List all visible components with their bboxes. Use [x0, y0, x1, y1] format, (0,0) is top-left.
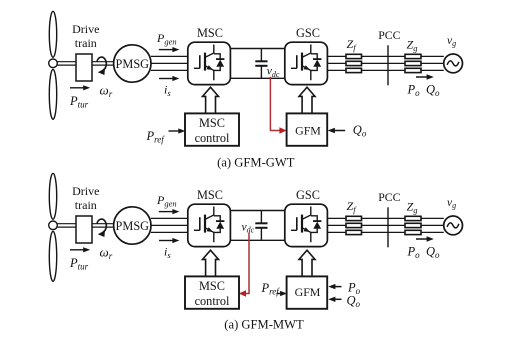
P_ref arrow into GFM (bottom fig): [277, 293, 282, 295]
MSC control box (bottom fig): [185, 276, 239, 308]
P_gen arrow (bottom fig): [159, 211, 173, 213]
svg-text:is: is: [164, 83, 171, 99]
block arrow MSC-control to MSC: [203, 87, 219, 113]
svg-text:Qo: Qo: [426, 245, 440, 261]
svg-text:Po: Po: [407, 245, 421, 261]
svg-text:Pgen: Pgen: [156, 193, 177, 209]
svg-text:Zf: Zf: [347, 37, 358, 53]
IGBT inside MSC: [194, 45, 225, 81]
P_tur arrow: [70, 87, 84, 89]
GFM box: [287, 113, 328, 145]
svg-text:vdc: vdc: [242, 222, 255, 235]
svg-text:Qo: Qo: [353, 123, 367, 139]
turbine hub (bottom fig): [49, 221, 58, 230]
svg-text:GSC: GSC: [296, 26, 320, 40]
svg-text:Zf: Zf: [347, 199, 358, 215]
svg-text:PMSG: PMSG: [116, 219, 150, 233]
svg-text:(a) GFM-MWT: (a) GFM-MWT: [224, 318, 304, 332]
svg-text:Drive: Drive: [72, 22, 99, 36]
GFM box (bottom fig): [287, 276, 328, 308]
generator PMSG: [114, 45, 151, 82]
red feedback wire v_dc to GFM: [270, 77, 280, 131]
wind turbine lower blade (bottom fig): [49, 231, 56, 281]
svg-text:GSC: GSC: [296, 188, 320, 202]
svg-text:GFM: GFM: [295, 123, 321, 137]
generator PMSG (bottom fig): [114, 207, 151, 244]
P_tur arrow (bottom fig): [70, 249, 84, 251]
three-phase wires GSC to grid (bottom fig): [327, 218, 443, 232]
converter GSC box: [285, 42, 328, 84]
svg-text:PMSG: PMSG: [116, 57, 150, 71]
svg-text:train: train: [75, 198, 97, 212]
svg-text:control: control: [195, 131, 230, 145]
P_gen arrow: [159, 49, 173, 51]
PCC bus line (bottom fig): [387, 207, 389, 247]
svg-text:ωr: ωr: [100, 82, 113, 99]
converter MSC box (bottom fig): [188, 204, 231, 246]
svg-text:vdc: vdc: [267, 66, 280, 79]
block arrow GFM to GSC: [299, 87, 315, 113]
svg-text:PCC: PCC: [378, 190, 400, 204]
turbine shaft (double line): [55, 62, 114, 65]
P_o input arrow (bottom fig): [335, 286, 342, 288]
svg-text:Ptur: Ptur: [69, 94, 89, 110]
svg-text:vg: vg: [447, 197, 456, 210]
svg-text:PCC: PCC: [378, 28, 400, 42]
svg-text:MSC: MSC: [197, 26, 223, 40]
svg-text:Drive: Drive: [72, 184, 99, 198]
turbine shaft (bottom fig): [55, 224, 114, 227]
IGBT inside GSC: [291, 45, 322, 81]
wind turbine upper blade: [49, 11, 56, 57]
svg-text:GFM: GFM: [295, 285, 321, 299]
converter GSC box (bottom fig): [285, 204, 328, 246]
i_s arrow: [159, 78, 173, 80]
DC link capacitor: [255, 49, 267, 79]
impedance Z_f (bottom fig): [346, 216, 362, 234]
svg-text:vg: vg: [447, 35, 456, 48]
svg-text:Zg: Zg: [407, 37, 418, 53]
Q_o input arrow: [334, 130, 345, 132]
DC link rails: [230, 49, 284, 79]
impedance Z_g (bottom fig): [405, 216, 421, 234]
output power arrow (bottom fig): [416, 238, 427, 240]
i_s arrow (bottom fig): [159, 240, 173, 242]
svg-text:control: control: [195, 294, 230, 308]
svg-text:ωr: ωr: [100, 244, 113, 261]
impedance Z_g (three boxes): [405, 54, 421, 72]
svg-text:Zg: Zg: [407, 199, 418, 215]
svg-text:MSC: MSC: [199, 116, 225, 130]
svg-text:(a) GFM-GWT: (a) GFM-GWT: [217, 156, 295, 170]
IGBT inside MSC (bottom fig): [194, 207, 225, 243]
rotation arrow around shaft (bottom fig): [97, 219, 106, 232]
drive train box: [76, 54, 92, 81]
rotation arrow around shaft: [97, 57, 106, 70]
wind turbine lower blade: [49, 69, 56, 119]
turbine hub: [49, 59, 58, 68]
DC link rails (bottom fig): [230, 211, 284, 241]
block arrow GFM to GSC (bottom fig): [299, 250, 315, 276]
impedance Z_f (three boxes): [346, 54, 362, 72]
output power arrow: [416, 76, 427, 78]
DC link capacitor (bottom fig): [255, 211, 267, 241]
svg-text:Pref: Pref: [146, 129, 166, 145]
svg-text:MSC: MSC: [199, 279, 225, 293]
drive train box (bottom fig): [76, 216, 92, 243]
svg-text:Po: Po: [407, 83, 421, 99]
three-phase wires PMSG to MSC (bottom fig): [151, 218, 188, 232]
converter MSC box: [188, 42, 231, 84]
three-phase wires GSC to grid: [327, 56, 443, 70]
Q_o input arrow (bottom fig): [335, 298, 342, 300]
svg-text:Ptur: Ptur: [69, 256, 89, 272]
PCC bus line: [387, 45, 389, 85]
svg-text:MSC: MSC: [197, 188, 223, 202]
svg-text:train: train: [75, 36, 97, 50]
three-phase wires PMSG to MSC: [151, 56, 188, 70]
red feedback wire v_dc to MSC control (bottom fig): [245, 233, 249, 294]
wind turbine upper blade (bottom fig): [49, 173, 56, 219]
svg-text:is: is: [164, 245, 171, 261]
P_ref arrow: [169, 130, 180, 132]
grid voltage source v_g: [444, 54, 463, 73]
IGBT inside GSC (bottom fig): [291, 207, 322, 243]
block arrow MSC-control to MSC (bottom fig): [203, 250, 219, 276]
grid voltage source v_g (bottom fig): [444, 216, 463, 235]
svg-text:Pgen: Pgen: [156, 31, 177, 47]
svg-text:Qo: Qo: [426, 83, 440, 99]
MSC control box: [185, 113, 239, 145]
